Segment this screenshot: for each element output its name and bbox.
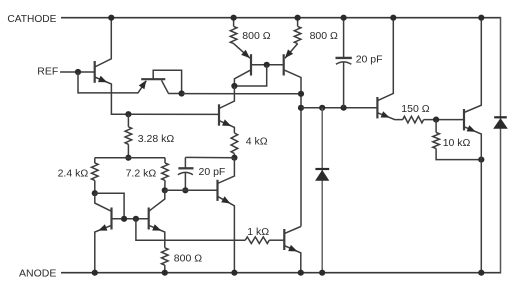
resistor R8 1k-ohm xyxy=(245,237,269,244)
node REF junction xyxy=(75,69,81,75)
transistor Q1 emitter xyxy=(95,76,129,114)
node junction D1 top xyxy=(319,105,325,111)
node cathode rail junction at R2 xyxy=(295,15,301,21)
node junction Q1 emitter / R3 xyxy=(125,111,131,117)
svg-text:7.2 kΩ: 7.2 kΩ xyxy=(126,168,157,180)
transistor Q1 bar xyxy=(94,61,96,83)
wire REF node down to Q2 emitter xyxy=(78,72,146,93)
resistor R1 label xyxy=(242,30,270,42)
resistor R2 label xyxy=(310,30,338,42)
transistor Q11 collector xyxy=(284,70,301,227)
capacitor C1 top plate xyxy=(336,57,352,59)
resistor R8 label xyxy=(247,226,269,238)
node junction R5 / Q4 collector / C2 xyxy=(162,187,168,193)
svg-text:2.4 kΩ: 2.4 kΩ xyxy=(58,167,89,179)
transistor Q6 bar xyxy=(216,180,218,201)
node junction Q11 collector and compensation wire xyxy=(298,105,304,111)
transistor Q4 collector xyxy=(149,190,165,211)
node anode junction at Q6 xyxy=(231,270,237,276)
svg-text:800 Ω: 800 Ω xyxy=(310,30,338,42)
transistor Q2 emitter arrow xyxy=(139,80,147,89)
svg-text:3.28 kΩ: 3.28 kΩ xyxy=(138,133,175,145)
resistor R7 label xyxy=(174,253,202,265)
transistor Q6 emitter xyxy=(218,196,235,272)
node Q3 base junction xyxy=(121,216,127,222)
diode D2 cathode bar xyxy=(494,116,507,118)
wire Q11 collector to Q8 base xyxy=(301,107,377,109)
capacitor C1 bottom lead xyxy=(343,62,345,107)
transistor Q2 collector xyxy=(162,80,169,93)
transistor Q8 collector xyxy=(377,18,393,101)
resistor R10 lead bottom xyxy=(436,149,481,160)
node cathode rail junction at Q9 xyxy=(478,15,484,21)
resistor R6 4k-ohm xyxy=(231,133,238,154)
transistor Q11 bar xyxy=(283,54,285,75)
node anode junction at Q3 xyxy=(92,270,98,276)
node cathode rail junction at C1 xyxy=(341,15,347,21)
capacitor C1 bottom plate xyxy=(336,62,351,64)
node junction R6 / C2 / Q6 collector xyxy=(231,155,237,161)
node base junction of Q10 Q11 xyxy=(264,62,270,68)
resistor R6 label xyxy=(246,136,268,148)
resistor R1 800-ohm xyxy=(230,26,237,43)
capacitor C2 label xyxy=(199,166,226,178)
wire Q2 node to Q11 collector column xyxy=(182,93,301,95)
svg-text:20 pF: 20 pF xyxy=(199,166,226,178)
node anode junction at D1 xyxy=(319,270,325,276)
resistor R5 label xyxy=(126,168,157,180)
resistor R4 lead bottom xyxy=(94,180,96,193)
svg-text:20 pF: 20 pF xyxy=(356,54,383,66)
diode D1 triangle xyxy=(315,170,329,181)
wire R9 to Q9 base xyxy=(424,119,464,121)
transistor Q2 bar xyxy=(141,78,165,80)
transistor Q3 bar xyxy=(110,208,112,230)
transistor Q8 bar xyxy=(376,97,378,118)
transistor Q10 collector xyxy=(234,70,251,86)
svg-text:ANODE: ANODE xyxy=(19,268,56,280)
transistor Q2 base loop xyxy=(153,70,181,93)
resistor R4 lead top xyxy=(94,158,96,163)
svg-text:CATHODE: CATHODE xyxy=(7,14,56,25)
transistor Q1 collector xyxy=(95,18,112,67)
transistor Q9 emitter xyxy=(464,125,481,273)
transistor Q7 collector xyxy=(284,227,301,234)
transistor Q5 emitter xyxy=(219,119,234,133)
wire R3 node horizontal xyxy=(95,157,165,159)
transistor Q4 emitter xyxy=(149,224,165,248)
resistor R2 lead xyxy=(297,18,299,27)
resistor R1 lead xyxy=(233,18,235,27)
diode D1 line xyxy=(321,108,323,273)
wire cathode top rail xyxy=(61,17,501,19)
transistor Q7 emitter xyxy=(284,245,301,273)
resistor R10 lead top xyxy=(435,120,437,133)
transistor Q7 bar xyxy=(283,229,285,250)
capacitor C2 bottom plate xyxy=(178,172,193,174)
resistor R3 lead bottom xyxy=(127,144,129,157)
node Q2 collector-base junction xyxy=(179,90,185,96)
wire base junction down to mirror node xyxy=(234,65,266,86)
diode D1 cathode bar xyxy=(315,168,329,170)
svg-text:4 kΩ: 4 kΩ xyxy=(246,136,268,148)
resistor R3 lead top xyxy=(127,114,129,127)
svg-text:10 kΩ: 10 kΩ xyxy=(443,137,471,149)
node junction R3 bottom xyxy=(125,155,131,161)
capacitor C2 bottom lead xyxy=(184,173,186,190)
resistor R4 label xyxy=(58,167,89,179)
resistor R6 lead xyxy=(233,154,235,158)
wire REF to Q1 base xyxy=(60,71,95,73)
capacitor C1 label xyxy=(356,54,383,66)
transistor Q5 bar xyxy=(218,104,220,125)
resistor R10 label xyxy=(443,137,471,149)
node junction C1 bottom xyxy=(341,105,347,111)
wire anode bottom rail xyxy=(61,272,501,274)
diode D2 triangle xyxy=(493,118,508,129)
resistor R3 label xyxy=(138,133,175,145)
node cathode rail junction at R1 xyxy=(231,15,237,21)
wire right side rail (cathode to anode loop) xyxy=(500,17,502,274)
transistor Q4 bar xyxy=(148,208,150,230)
transistor Q11 emitter xyxy=(285,44,298,59)
resistor R4 2.4k-ohm xyxy=(92,163,99,180)
svg-text:150 Ω: 150 Ω xyxy=(401,103,429,115)
wire Q1 emitter node to Q5 base xyxy=(128,113,219,115)
transistor Q9 collector xyxy=(464,18,481,113)
wire Q4 base node down and right to R8 xyxy=(136,219,245,240)
wire mirror node to Q6 base xyxy=(165,189,218,191)
node REF label xyxy=(37,66,58,78)
transistor Q3 emitter xyxy=(95,224,112,272)
capacitor C1 top lead xyxy=(343,18,345,57)
wire Q2 collector to node xyxy=(168,93,181,95)
svg-text:800 Ω: 800 Ω xyxy=(174,253,202,265)
resistor R7 lead xyxy=(164,265,166,273)
wire R4 node to Q3 base loop xyxy=(95,193,124,219)
transistor Q10 bar xyxy=(250,54,252,75)
node junction R10 / Q9 emitter xyxy=(478,157,484,163)
transistor Q6 collector xyxy=(218,158,235,184)
transistor Q3 collector xyxy=(95,193,112,211)
node anode junction at Q7 xyxy=(298,270,304,276)
transistor Q5 collector xyxy=(219,86,234,109)
node cathode rail junction at Q1 collector xyxy=(108,15,114,21)
capacitor C2 top lead xyxy=(184,157,186,168)
transistor Q9 bar xyxy=(463,109,465,130)
node anode junction at R7 xyxy=(162,270,168,276)
node Q4 base junction xyxy=(133,216,139,222)
svg-text:1 kΩ: 1 kΩ xyxy=(247,226,269,238)
resistor R5 lead top xyxy=(164,158,166,163)
node anode junction at Q9 xyxy=(478,270,484,276)
resistor R10 10k-ohm xyxy=(433,133,440,149)
resistor R9 150-ohm xyxy=(403,116,424,123)
resistor R7 800-ohm xyxy=(162,248,169,265)
node junction R9 / R10 xyxy=(433,117,439,123)
resistor R3 3.28k-ohm xyxy=(125,127,132,145)
wire Q3-Q4 base xyxy=(112,218,149,220)
resistor R2 800-ohm xyxy=(294,26,301,43)
capacitor C2 top plate xyxy=(178,167,193,169)
wire C2 top to R6 node xyxy=(185,156,234,158)
resistor R5 lead bottom xyxy=(164,180,166,190)
wire R8 to Q7 base xyxy=(269,239,284,241)
svg-text:REF: REF xyxy=(37,66,58,78)
node junction R4 / Q3 collector xyxy=(92,190,98,196)
node junction Q11 collector and Q2 wire xyxy=(298,91,304,97)
resistor R9 label xyxy=(401,103,429,115)
wire Q10-Q11 base xyxy=(251,64,284,66)
transistor Q8 emitter xyxy=(377,111,402,119)
node cathode rail junction at Q8 xyxy=(390,15,396,21)
resistor R5 7.2k-ohm xyxy=(162,163,169,180)
transistor Q10 emitter xyxy=(234,44,250,59)
node CATHODE label xyxy=(7,14,56,25)
node mirror junction A xyxy=(231,83,237,89)
node ANODE label xyxy=(19,268,56,280)
node junction C2 bottom xyxy=(182,187,188,193)
svg-text:800 Ω: 800 Ω xyxy=(242,30,270,42)
